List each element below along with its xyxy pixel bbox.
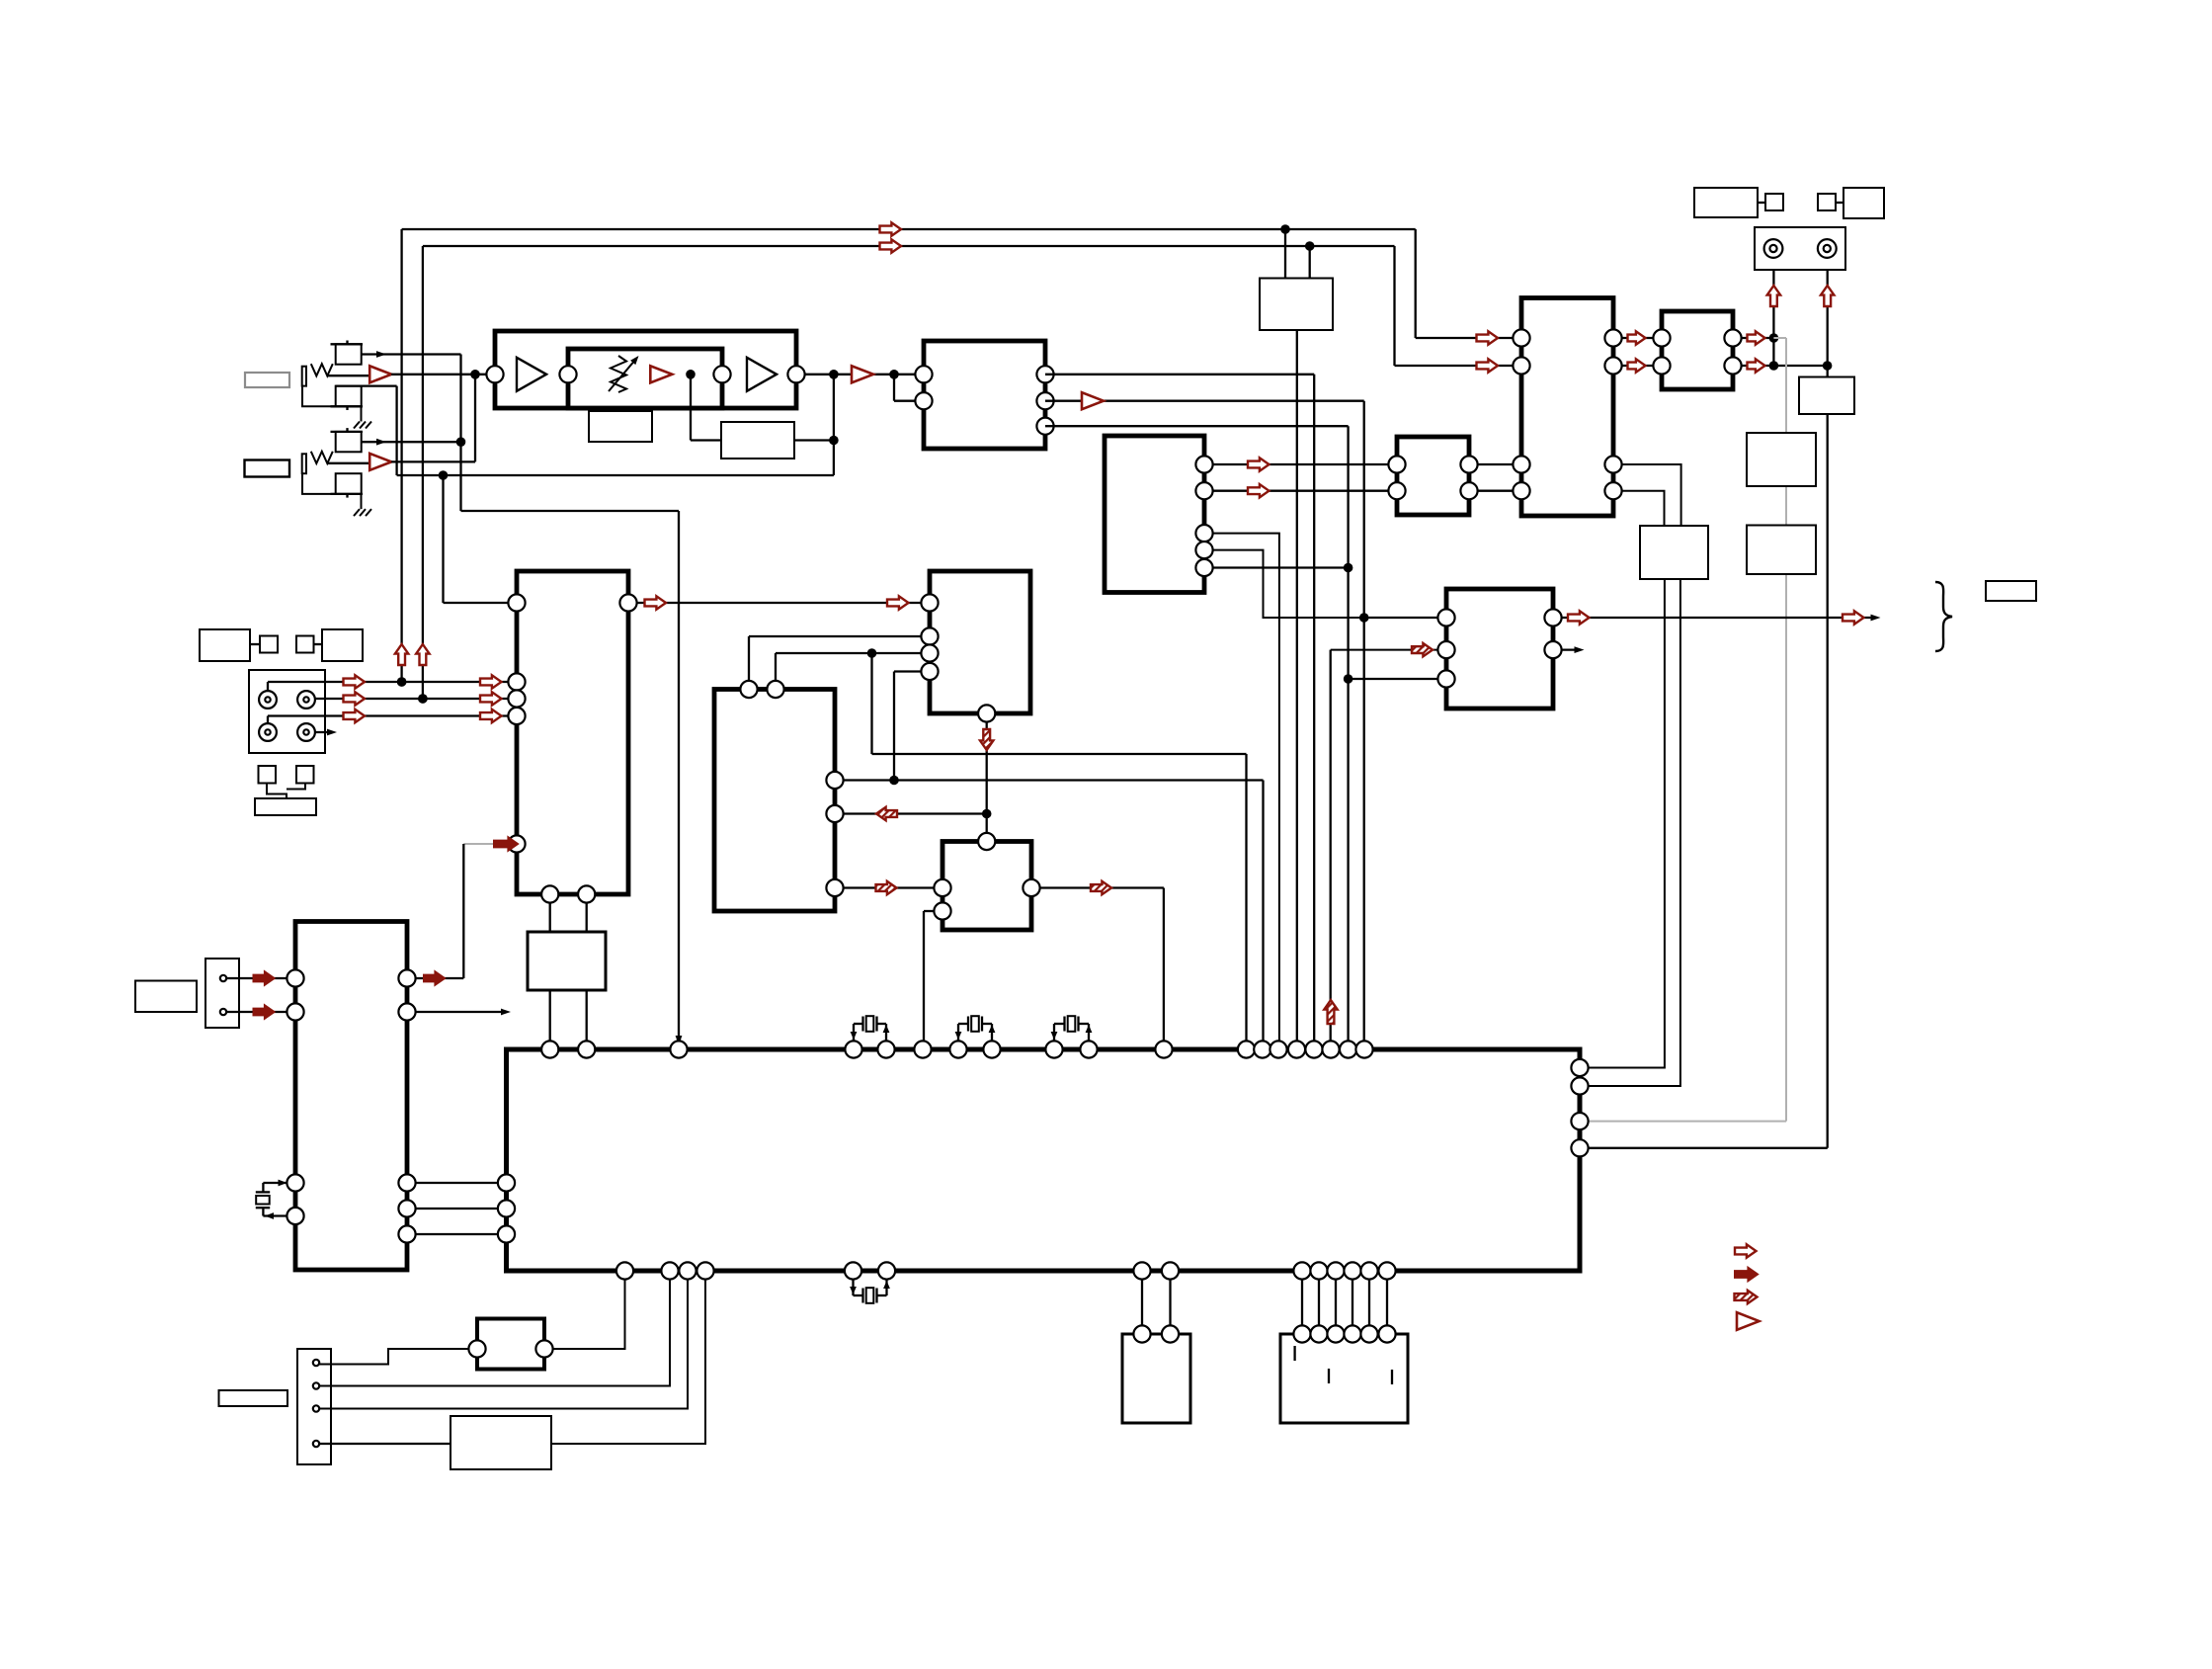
- pin U3 bot: [978, 705, 995, 721]
- pin CPU bot 7: [1133, 1262, 1150, 1279]
- pin loop in: [486, 366, 503, 382]
- arrow amp in1: [1477, 331, 1499, 344]
- pin U17 t4: [1344, 1325, 1360, 1342]
- pin U2 d: [508, 708, 525, 724]
- wire U14 out: [553, 1280, 625, 1350]
- IC U12 TUNER (thick box): [295, 922, 407, 1271]
- jack J1 ring pin: [346, 406, 348, 410]
- pin U1 out1: [1036, 366, 1053, 382]
- arrowhead out2: [1575, 646, 1585, 653]
- arrowhead rca br: [327, 729, 337, 736]
- pin U17 t5: [1360, 1325, 1377, 1342]
- legend arrow open: [1735, 1244, 1757, 1257]
- wire U7 r1: [1478, 463, 1514, 465]
- pin U6 r4: [1195, 542, 1212, 558]
- pin U8 l2: [1513, 357, 1529, 374]
- gray stub: [463, 843, 494, 845]
- pin U6 r3: [1195, 525, 1212, 542]
- wire U2 bot1: [549, 902, 551, 1042]
- wire U16 2: [1169, 1280, 1171, 1326]
- pin U8 l3: [1513, 456, 1529, 472]
- arrow hatch b7: [1412, 643, 1433, 656]
- RCA in BR: [297, 723, 315, 741]
- arrow U6 r2: [1248, 484, 1270, 497]
- arrow hatch up: [1324, 1000, 1337, 1024]
- wire conn2: [320, 1280, 671, 1386]
- IC U5 (thick box): [942, 842, 1031, 931]
- arrow opt1 a: [344, 675, 366, 688]
- pin CPU r3: [1571, 1113, 1588, 1129]
- crystal X1: [853, 1024, 855, 1042]
- arrow b8 out2: [1748, 359, 1765, 372]
- wire U3 in3: [776, 652, 922, 654]
- wire TOP2 right down: [1393, 246, 1395, 366]
- wire gray down: [1785, 338, 1787, 1122]
- wire U12 r3: [416, 1182, 499, 1184]
- pin U4 r2: [826, 805, 843, 822]
- pin U6 r1: [1195, 456, 1212, 472]
- wire TOP1 vertical left: [400, 229, 402, 682]
- wire U9 d2: [1589, 579, 1680, 1086]
- node U3 in3: [867, 648, 877, 658]
- IC U6 (thick box): [1105, 436, 1204, 593]
- node opt1: [397, 677, 407, 687]
- wire U5 l2 down: [923, 911, 925, 1042]
- wire U1 out2: [1045, 400, 1364, 402]
- wire 763 h: [872, 753, 1247, 755]
- wire U6 r5: [1213, 566, 1349, 568]
- arrowhead J1 switch: [376, 351, 386, 358]
- wire U1 out1 down: [1313, 375, 1315, 1042]
- box T18: [1765, 194, 1783, 210]
- pin U12 l1: [287, 969, 303, 986]
- wire conn4: [320, 1443, 451, 1445]
- wire t15 v2: [1309, 246, 1311, 279]
- pin U4 r1: [826, 772, 843, 789]
- arrow out line b: [1843, 611, 1864, 624]
- wire TOP1 right down: [1415, 229, 1417, 338]
- wire U17 1: [1301, 1280, 1303, 1326]
- wire J2 switch: [362, 441, 461, 443]
- node rca1: [1769, 333, 1779, 343]
- wire branch2 to pin: [894, 400, 916, 402]
- IC U13 CPU (thick box): [507, 1049, 1581, 1271]
- link4: [1836, 202, 1843, 204]
- box T15: [1260, 279, 1333, 331]
- arrow tuner f1: [424, 971, 445, 984]
- pin CPU bot 12: [1344, 1262, 1360, 1279]
- wire J1 return: [336, 384, 397, 386]
- wire U17 3: [1335, 1280, 1337, 1326]
- pin U17 t6: [1378, 1325, 1395, 1342]
- arrow hatch r2: [1091, 881, 1111, 894]
- pin U10 r1: [1724, 329, 1741, 346]
- pin CPU top 15: [1288, 1041, 1305, 1057]
- pin U12 r1: [398, 969, 415, 986]
- RCA out R: [1818, 239, 1837, 258]
- pin CPU top 12: [1238, 1041, 1255, 1057]
- jack J2 zigzag: [311, 452, 333, 463]
- arrow rca up1: [1767, 286, 1780, 306]
- wire t15 v1: [1284, 229, 1286, 279]
- wire opt1 up: [267, 682, 269, 691]
- pin U5 r1: [1023, 879, 1039, 896]
- wire U6 r1: [1213, 463, 1389, 465]
- pin CPU bot 13: [1360, 1262, 1377, 1279]
- wire U17 6: [1386, 1280, 1388, 1326]
- jack J2 signal stub: [327, 462, 369, 464]
- box OPT sq4: [296, 766, 314, 784]
- arrow amp out2: [1628, 359, 1646, 372]
- node L2 out: [829, 436, 839, 446]
- crystal X2: [957, 1024, 959, 1042]
- wire U11 r2 out: [1562, 648, 1581, 650]
- RCA in BL: [259, 723, 277, 741]
- wire t15 down: [1296, 330, 1298, 1042]
- pin U8 r3: [1604, 456, 1621, 472]
- node rca2b: [1823, 361, 1833, 371]
- pin CPU bot 14: [1378, 1262, 1395, 1279]
- RCA in TL: [259, 691, 277, 709]
- wire J1 return down: [395, 386, 397, 475]
- wire TOP2 (tape out R): [423, 245, 1395, 247]
- IC U3 (thick box): [930, 571, 1030, 713]
- wire rca br stub: [315, 731, 333, 733]
- wire 763 down: [1245, 754, 1247, 1042]
- pin U8 r1: [1604, 329, 1621, 346]
- wire U17 5: [1368, 1280, 1370, 1326]
- wire pwr1: [227, 977, 287, 979]
- pin U8 r4: [1604, 482, 1621, 499]
- wire U1 out2 down: [1363, 401, 1365, 1042]
- IC U4 (thick box): [714, 690, 835, 912]
- pin CPU l3: [498, 1225, 515, 1242]
- pin pwr2: [220, 1009, 226, 1015]
- jack J2 tip tick: [331, 431, 364, 433]
- pin conn2: [313, 1382, 319, 1388]
- wire U1 out3 down: [1347, 426, 1349, 1041]
- arrow TOP2: [880, 239, 902, 252]
- pin CPU top 3: [670, 1041, 687, 1057]
- jack J2 ring pin: [346, 494, 348, 498]
- arrow up V2: [416, 644, 429, 665]
- wire branch2 down: [893, 375, 895, 401]
- arrow U6 r1: [1248, 458, 1270, 470]
- wire U12 r5: [416, 1233, 499, 1235]
- box LOOP outer (thick): [495, 331, 796, 408]
- jack J1 ring tick: [331, 405, 364, 407]
- pin U5 top: [978, 833, 995, 850]
- box label out: [1986, 581, 2036, 601]
- wire loop out down: [833, 375, 835, 475]
- wire rca v2: [1827, 270, 1829, 1148]
- pin U12 l4: [287, 1208, 303, 1224]
- pin CPU top 10: [1080, 1041, 1097, 1057]
- wire U12 r2: [416, 1011, 507, 1013]
- jack J2 sleeve bar: [302, 454, 306, 473]
- amp A3 (maroon): [650, 366, 672, 382]
- box LOOP inner (thick): [568, 349, 722, 408]
- wire U9 d1: [1589, 579, 1665, 1068]
- pin U2 bot2: [578, 885, 595, 902]
- label J2: [245, 460, 290, 477]
- box label conn: [219, 1390, 288, 1406]
- node loop out branch: [829, 370, 839, 379]
- arrow U3 in: [887, 596, 909, 609]
- arrow dsp f1: [494, 837, 518, 850]
- pin CPU top 5: [877, 1041, 894, 1057]
- pin U12 r4: [398, 1200, 415, 1216]
- pin U8 l4: [1513, 482, 1529, 499]
- U17 ticks: [1293, 1346, 1295, 1361]
- pin CPU r1: [1571, 1059, 1588, 1076]
- wire U2 bot2: [586, 902, 588, 1042]
- arrow opt3 a: [344, 709, 366, 722]
- jack J1 zigzag: [311, 364, 333, 376]
- wire switch bus down: [459, 355, 461, 512]
- pin U5 l1: [934, 879, 950, 896]
- pin CPU top 2: [578, 1041, 595, 1057]
- arrow U2 out: [645, 596, 667, 609]
- label box L1: [589, 411, 652, 442]
- IC U11 (thick box): [1446, 589, 1553, 709]
- wire U16 1: [1141, 1280, 1143, 1326]
- wire cpu r4: [1589, 1147, 1828, 1149]
- node rca2a: [1769, 361, 1779, 371]
- box T17: [1694, 188, 1758, 217]
- wire 898: [844, 886, 935, 888]
- wire U11 l1: [1364, 617, 1438, 619]
- pin U4 t2: [767, 681, 783, 698]
- wire U3 in2: [749, 635, 922, 637]
- pin U10 l2: [1653, 357, 1670, 374]
- pin CPU top 11: [1155, 1041, 1172, 1057]
- box PWRCONN: [205, 959, 239, 1028]
- arrow opt1 b: [480, 675, 502, 688]
- node out2 b7: [1359, 613, 1369, 623]
- pin U3 in4: [921, 663, 938, 680]
- pin CPU top 17: [1322, 1041, 1339, 1057]
- wire 824: [844, 812, 987, 814]
- pin CPU l2: [498, 1200, 515, 1216]
- RCA out L: [1764, 239, 1783, 258]
- amp A4 (maroon): [852, 366, 873, 382]
- pin U11 l2: [1437, 641, 1454, 658]
- pin U16 t1: [1133, 1325, 1150, 1342]
- wire opt2: [315, 698, 509, 700]
- pin CPU bot 8: [1162, 1262, 1179, 1279]
- jack J1 ring contact: [336, 386, 362, 407]
- pin U1 in2: [915, 392, 932, 409]
- pin CPU bot 4: [696, 1262, 713, 1279]
- opt legs: [267, 784, 287, 799]
- box OPT sq3: [259, 766, 277, 784]
- node out3 j1: [1344, 563, 1353, 573]
- amp buffer A2 (maroon) J2: [369, 454, 391, 470]
- pin U6 r5: [1195, 559, 1212, 576]
- pin CPU bot 10: [1310, 1262, 1327, 1279]
- wire U5 r1: [1040, 886, 1164, 888]
- wire U1 out1: [1045, 374, 1314, 376]
- pin U14 l: [468, 1340, 485, 1357]
- node t15 2: [1305, 241, 1315, 251]
- pin U7 r2: [1460, 482, 1477, 499]
- wire U3 in4: [894, 670, 922, 672]
- wire tuner up: [462, 844, 464, 978]
- crystal X3: [1053, 1024, 1055, 1042]
- link2: [314, 643, 323, 645]
- arrowhead U12 r2: [501, 1009, 511, 1016]
- wire U8 r1: [1622, 337, 1654, 339]
- jack J1 signal stub: [327, 375, 369, 376]
- wire rca v1: [1772, 270, 1774, 366]
- pin U10 r2: [1724, 357, 1741, 374]
- wire U3 in4 down: [893, 672, 895, 781]
- wire to DSP pin1: [444, 602, 509, 604]
- arrow up V1: [395, 644, 408, 665]
- pin U2 bot1: [541, 885, 558, 902]
- pin U7 l1: [1388, 456, 1405, 472]
- wire U15 out: [551, 1280, 705, 1445]
- wire U17 2: [1318, 1280, 1320, 1326]
- wire TOP1 to amp pin: [1416, 337, 1514, 339]
- pin CPU top 6: [914, 1041, 931, 1057]
- brace: [1935, 582, 1952, 651]
- box T19: [1818, 194, 1836, 210]
- pin U3 in1: [921, 594, 938, 611]
- node 824: [982, 809, 992, 819]
- wire J1 switch: [362, 353, 461, 355]
- node loop out branch2: [889, 370, 899, 379]
- jack J2 sleeve loop: [302, 473, 362, 509]
- buffer B1 (black): [517, 358, 546, 391]
- pin U1 out3: [1036, 418, 1053, 435]
- wire conn3: [320, 1280, 689, 1409]
- pin U10 l1: [1653, 329, 1670, 346]
- legend triangle: [1737, 1312, 1760, 1330]
- wire U11 l3: [1349, 678, 1438, 680]
- wire U3 bot down: [986, 722, 988, 834]
- node opt1 j: [397, 677, 407, 687]
- pin U2 b: [508, 673, 525, 690]
- node 790: [889, 776, 899, 786]
- box U16: [1122, 1334, 1190, 1423]
- pin CPU r2: [1571, 1077, 1588, 1094]
- arrow hatch r1: [876, 881, 897, 894]
- pin U2 c: [508, 690, 525, 707]
- pin CPU r4: [1571, 1139, 1588, 1156]
- box U17 display: [1280, 1334, 1408, 1423]
- wire U10 r2: [1742, 365, 1828, 367]
- pin U11 r1: [1544, 609, 1561, 626]
- wire U8 r2: [1622, 365, 1654, 367]
- box B9: [1799, 377, 1854, 415]
- pin U12 l3: [287, 1174, 303, 1191]
- jack J1 tip tick: [331, 343, 364, 345]
- node opt2: [418, 694, 428, 704]
- wire U2 out: [637, 602, 922, 604]
- node feedback branch: [439, 470, 449, 480]
- pin loop out: [787, 366, 804, 382]
- wire TOP2 vertical left: [422, 246, 424, 699]
- wire L2 out: [794, 439, 834, 441]
- arrow pwr f2: [254, 1005, 275, 1018]
- node J2 switch junction: [456, 437, 466, 447]
- pin U5 l2: [934, 902, 950, 919]
- wire loop main: [487, 374, 916, 376]
- node J1 signal branch: [470, 370, 480, 379]
- RCA in TR: [297, 691, 315, 709]
- pin pwr1: [220, 975, 226, 981]
- pin U12 l2: [287, 1003, 303, 1020]
- box OPT label1: [200, 629, 250, 661]
- pin U8 l1: [1513, 329, 1529, 346]
- box CONN (bottom left): [297, 1349, 331, 1464]
- arrowhead into CPU pin: [676, 1036, 683, 1045]
- amp A5 (maroon): [1082, 392, 1104, 409]
- wire U6 r4: [1213, 550, 1438, 618]
- arrow amp out1: [1628, 331, 1646, 344]
- ground J1: [354, 422, 371, 429]
- IC U2 DSP (thick box): [517, 571, 628, 894]
- jack J2 tip pin: [346, 428, 348, 432]
- pin CPU top 7: [949, 1041, 966, 1057]
- pin U1 out2: [1036, 392, 1053, 409]
- IC U8 AMP (thick box): [1521, 298, 1613, 517]
- arrow opt2 a: [344, 692, 366, 705]
- pin CPU l1: [498, 1174, 515, 1191]
- legend arrow filled: [1735, 1268, 1758, 1281]
- arrow pwr f1: [254, 971, 275, 984]
- box OPT sq2: [296, 636, 314, 653]
- pin U11 l3: [1437, 670, 1454, 687]
- wire opt1: [268, 681, 509, 683]
- IC U1 (thick box): [924, 341, 1045, 449]
- wire switch bus east: [461, 510, 680, 512]
- pin U2 a: [508, 594, 525, 611]
- wire U6 r3: [1213, 534, 1279, 1042]
- pin conn3: [313, 1405, 319, 1411]
- pin U12 r2: [398, 1003, 415, 1020]
- wire U7 r2: [1478, 490, 1514, 492]
- arrow out line a: [1568, 611, 1590, 624]
- pin U12 r5: [398, 1225, 415, 1242]
- wire TOP1 (tape out L): [402, 228, 1416, 230]
- wire 790 down: [1262, 781, 1264, 1042]
- arrow amp in2: [1477, 359, 1499, 372]
- pin CPU bot 3: [679, 1262, 696, 1279]
- box B11: [1747, 433, 1816, 486]
- wire junction1 down: [690, 375, 692, 441]
- arrow hatch left: [876, 807, 897, 820]
- pin U1 in1: [915, 366, 932, 382]
- box U15: [451, 1416, 551, 1469]
- pin CPU bot 11: [1327, 1262, 1344, 1279]
- wire U17 4: [1352, 1280, 1353, 1326]
- arrow opt3 b: [480, 709, 502, 722]
- jack J1 tip contact: [336, 344, 362, 364]
- wire conn1: [320, 1349, 469, 1365]
- crystal X4: [852, 1280, 854, 1296]
- arrowhead out: [1871, 615, 1881, 622]
- pin loop mid2: [713, 366, 730, 382]
- box label pwr: [135, 981, 197, 1013]
- wire U3 in2 down: [748, 636, 750, 681]
- IC U7 (thick box): [1397, 437, 1469, 515]
- wire TOP2 to amp pin: [1395, 365, 1514, 367]
- label J1 (gray): [245, 373, 289, 387]
- pin CPU top 19: [1355, 1041, 1372, 1057]
